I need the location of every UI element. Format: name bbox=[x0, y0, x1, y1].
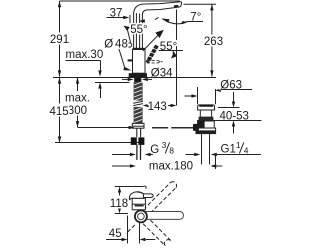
svg-text:291: 291 bbox=[50, 34, 69, 46]
svg-text:Ø48: Ø48 bbox=[104, 38, 128, 50]
svg-text:max.30: max.30 bbox=[66, 49, 104, 61]
svg-text:1: 1 bbox=[236, 140, 241, 150]
svg-text:300: 300 bbox=[68, 105, 87, 117]
svg-text:118: 118 bbox=[110, 198, 128, 210]
svg-text:415: 415 bbox=[50, 106, 69, 118]
svg-text:max.: max. bbox=[65, 92, 90, 104]
svg-text:45: 45 bbox=[109, 228, 122, 240]
svg-text:G1: G1 bbox=[221, 144, 236, 156]
svg-text:143: 143 bbox=[148, 101, 167, 113]
svg-text:8: 8 bbox=[169, 146, 174, 156]
svg-text:3: 3 bbox=[162, 140, 167, 150]
svg-text:max.180: max.180 bbox=[149, 161, 193, 173]
svg-text:55°: 55° bbox=[130, 24, 147, 36]
svg-text:263: 263 bbox=[204, 36, 223, 48]
